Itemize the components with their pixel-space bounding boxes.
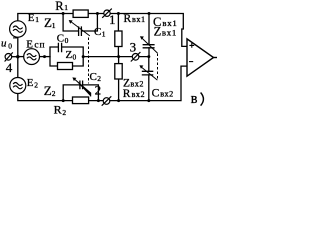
svg-text:Z: Z xyxy=(44,15,52,30)
svg-text:C: C xyxy=(94,26,101,38)
svg-text:вх2: вх2 xyxy=(132,90,146,99)
svg-text:0: 0 xyxy=(73,52,77,61)
wire middle rail node3 xyxy=(83,56,149,58)
wire left bus E1-node4-E2 xyxy=(17,37,19,77)
source E2 xyxy=(10,78,26,94)
svg-text:0: 0 xyxy=(65,36,69,45)
svg-text:вх2: вх2 xyxy=(160,90,174,99)
svg-text:Z: Z xyxy=(154,25,162,39)
terminal 3 xyxy=(131,52,141,61)
op-amp U1 xyxy=(187,39,217,76)
op-amp minus mark xyxy=(189,61,193,63)
resistor Rbx2 xyxy=(115,64,122,79)
svg-text:4: 4 xyxy=(6,60,13,75)
op-amp plus mark xyxy=(189,43,194,48)
svg-text:Z: Z xyxy=(66,49,73,61)
svg-text:R: R xyxy=(54,103,62,117)
svg-text:С: С xyxy=(152,88,160,100)
svg-text:2: 2 xyxy=(95,83,102,98)
svg-text:R: R xyxy=(124,13,132,25)
svg-text:R: R xyxy=(55,0,64,13)
svg-text:E: E xyxy=(28,12,35,24)
svg-text:R: R xyxy=(123,88,131,100)
wire Cbx2 vertical leads xyxy=(148,57,150,101)
svg-text:1: 1 xyxy=(109,12,116,27)
terminal 1 xyxy=(102,9,112,18)
wire top rail from E1 to op-amp plus input xyxy=(18,14,187,47)
svg-text:вх1: вх1 xyxy=(162,28,177,38)
node A junction dots xyxy=(16,12,150,102)
svg-text:Z: Z xyxy=(44,83,52,98)
wire E2 bottom to bottom rail to op-amp minus input xyxy=(18,66,187,101)
svg-text:C: C xyxy=(57,33,64,45)
svg-text:E: E xyxy=(27,77,34,89)
svg-text:1: 1 xyxy=(102,29,106,38)
source Ecp xyxy=(24,49,40,65)
resistor R1 xyxy=(73,10,88,17)
resistor R2 xyxy=(73,97,89,104)
svg-text:0: 0 xyxy=(8,42,12,51)
svg-text:Е: Е xyxy=(26,39,33,51)
minus tick under E1 xyxy=(13,37,17,39)
svg-text:u: u xyxy=(1,38,7,50)
svg-text:в: в xyxy=(191,91,198,107)
resistor Rbx1 xyxy=(115,31,122,47)
wire R1 parallel loop xyxy=(63,14,97,32)
svg-text:вх1: вх1 xyxy=(132,15,146,24)
svg-text:1: 1 xyxy=(35,15,39,24)
terminal 2 xyxy=(102,96,112,105)
dashed link C1-C2 xyxy=(88,38,90,84)
wire R2 parallel loop xyxy=(63,85,98,101)
wire Cbx1 vertical leads xyxy=(148,14,150,57)
svg-text:1: 1 xyxy=(64,3,68,12)
capacitor C1 variable xyxy=(71,21,90,36)
wire Rbx2 vertical leads xyxy=(118,57,120,101)
svg-text:3: 3 xyxy=(130,39,137,54)
dashed link Cbx1-Cbx2 xyxy=(157,54,159,81)
capacitor C0 xyxy=(58,43,61,53)
svg-text:2: 2 xyxy=(62,108,66,117)
svg-text:C: C xyxy=(90,71,97,83)
terminal 4 xyxy=(5,52,13,61)
wire stub bus to Ecp source xyxy=(18,56,24,58)
svg-text:вх2: вх2 xyxy=(130,80,144,89)
wire Z0 parallel loop xyxy=(50,47,83,66)
capacitor Cbx1 variable xyxy=(142,38,158,53)
wire Rbx1 vertical leads xyxy=(117,14,119,57)
wire stub terminal4 to bus xyxy=(12,56,18,58)
svg-text:2: 2 xyxy=(34,81,38,90)
wire Ecp to Z0 block xyxy=(39,56,50,58)
svg-text:2: 2 xyxy=(52,89,56,98)
svg-text:сп: сп xyxy=(34,41,45,51)
svg-text:вх1: вх1 xyxy=(162,18,177,28)
impedance Z0 box xyxy=(58,63,73,70)
source E1 xyxy=(10,21,26,37)
svg-text:1: 1 xyxy=(52,21,56,30)
capacitor Cbx2 variable xyxy=(141,67,157,80)
capacitor C2 variable xyxy=(74,79,91,97)
